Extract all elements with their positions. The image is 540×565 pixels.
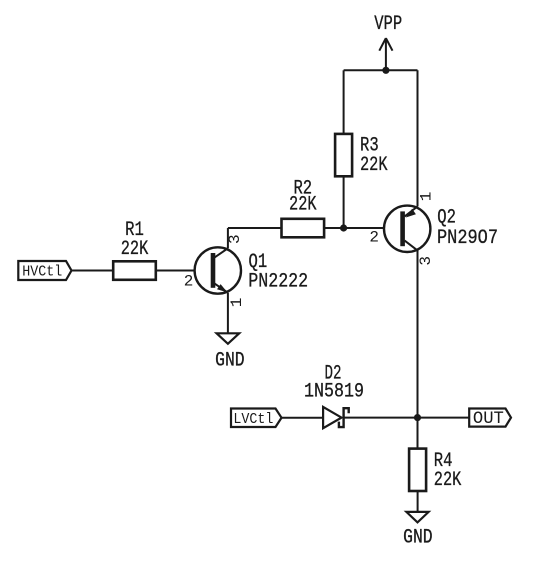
svg-text:22K: 22K: [434, 469, 462, 492]
transistor Q2: [369, 192, 498, 266]
node junction R3/R2/Q2 base: [340, 224, 347, 231]
svg-text:OUT: OUT: [473, 409, 504, 429]
wire Q1 emitter down: [227, 293, 229, 334]
ground GND at R4: [403, 512, 433, 549]
svg-text:GND: GND: [403, 526, 433, 549]
wire Q1 collector up: [227, 228, 229, 248]
resistor R1: [113, 219, 156, 280]
svg-text:PN2222: PN2222: [248, 271, 308, 294]
wire R3 bottom to base node: [343, 176, 345, 228]
svg-text:22K: 22K: [360, 154, 388, 177]
label OUT: [469, 409, 511, 430]
transistor Q1: [184, 234, 309, 307]
wire R4 to GND: [417, 491, 419, 512]
resistor R2: [282, 177, 325, 237]
ground GND at Q1 emitter: [215, 333, 245, 372]
svg-text:Q2: Q2: [437, 206, 456, 229]
svg-text:2: 2: [184, 273, 194, 291]
node junction at VPP: [382, 67, 389, 74]
wire collector rail to R2: [228, 227, 282, 229]
resistor R3: [335, 134, 387, 177]
diode D2 1N5819: [304, 362, 364, 428]
svg-text:3: 3: [417, 256, 435, 266]
svg-text:1: 1: [228, 298, 246, 308]
wire OUT node down to R4: [417, 418, 419, 449]
wire Q2 collector down to OUT node: [417, 250, 419, 417]
svg-text:22K: 22K: [121, 238, 149, 261]
wire R1 to Q1 base: [156, 270, 211, 272]
svg-text:GND: GND: [215, 349, 245, 372]
label HVCtl: [18, 261, 71, 280]
svg-text:1: 1: [418, 192, 436, 202]
svg-text:1N5819: 1N5819: [304, 380, 364, 403]
wire HVCtl to R1: [72, 270, 114, 272]
svg-text:LVCtl: LVCtl: [233, 412, 273, 428]
power symbol VPP: [374, 13, 402, 70]
wire top rail: [344, 69, 418, 71]
wire R2 to Q2 base: [324, 227, 400, 229]
node junction OUT: [414, 414, 421, 421]
wire LVCtl to D2 anode: [282, 417, 324, 419]
svg-text:PN29O7: PN29O7: [437, 227, 498, 250]
resistor R4: [409, 449, 461, 492]
svg-text:HVCtl: HVCtl: [22, 264, 62, 280]
wire D2 cathode to OUT: [344, 417, 470, 419]
wire VPP rail to Q2 emitter: [417, 70, 419, 206]
svg-text:22K: 22K: [289, 194, 317, 217]
svg-text:VPP: VPP: [374, 13, 402, 36]
label LVCtl: [231, 409, 282, 428]
svg-text:2: 2: [369, 229, 379, 247]
wire VPP rail to R3 top: [343, 70, 345, 134]
